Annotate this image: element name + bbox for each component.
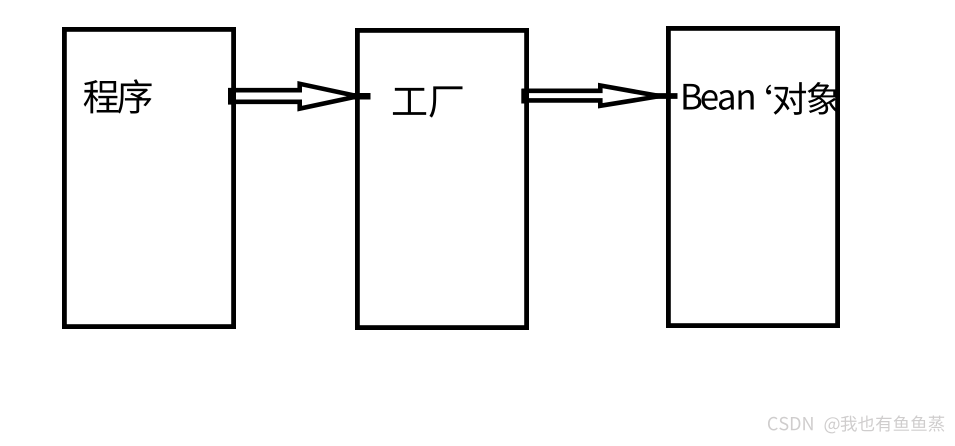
label: Bean‘对象 (683, 82, 839, 115)
box: 工厂 (factory) (357, 30, 526, 327)
box: Bean对象 (bean object) (668, 28, 837, 325)
arrow: 程序 -> 工厂 (228, 84, 371, 109)
arrow: 工厂 -> Bean对象 (522, 86, 678, 106)
label: 工厂 (393, 86, 463, 117)
watermark: CSDN @我也有鱼鱼蒸 (768, 415, 944, 433)
label: 程序 (84, 79, 152, 113)
box: 程序 (program) (64, 29, 233, 326)
